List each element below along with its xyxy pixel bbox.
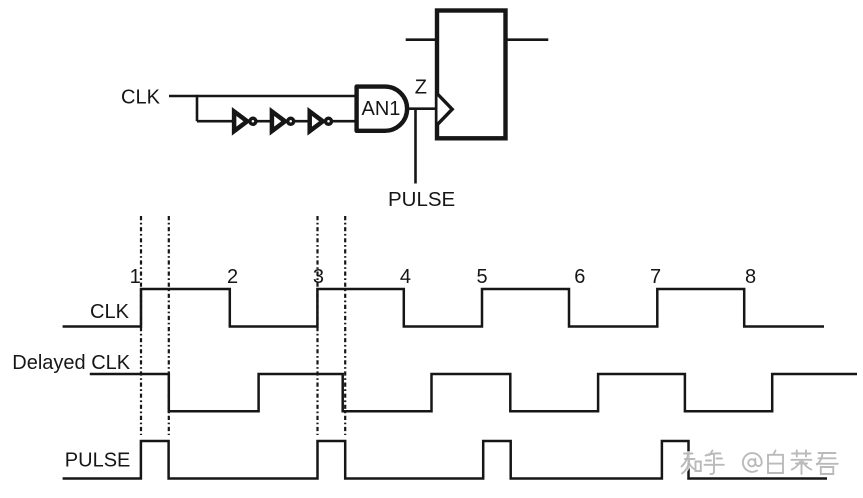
dash-dot marker line 3b [344,216,346,435]
svg-text:3: 3 [313,266,324,288]
wire down to PULSE [414,109,417,184]
flip-flop U1 body [437,11,506,139]
svg-text:Delayed CLK: Delayed CLK [12,352,131,374]
svg-text:4: 4 [400,266,411,288]
dash-dot marker line 1b [168,216,170,435]
wire branch down from CLK net [196,95,199,121]
svg-text:7: 7 [650,266,661,288]
wire inverter chain bottom to AND bottom input [197,120,357,123]
inverter 1 [234,112,256,132]
svg-text:CLK: CLK [90,301,130,323]
svg-text:CLK: CLK [121,87,161,109]
waveform CLK trace [63,289,824,327]
svg-text:2: 2 [227,266,238,288]
flip-flop clock edge triangle [438,94,453,124]
wire CLK to AND top input [169,95,357,98]
waveform PULSE trace [63,441,827,479]
svg-text:AN1: AN1 [362,98,401,120]
watermark 知乎 @白菜君 [682,451,838,475]
svg-text:PULSE: PULSE [65,450,131,472]
dash-dot marker line 3a [316,216,318,435]
waveform Delayed CLK trace [90,374,857,411]
svg-text:5: 5 [476,266,487,288]
svg-text:Z: Z [415,77,427,99]
dash-dot marker line 1a [140,216,142,435]
svg-text:PULSE: PULSE [388,188,455,211]
wire AND output Z to flip-flop [408,107,438,110]
inverter 3 [310,112,332,132]
and-gate AN1 [357,87,408,131]
wire flip-flop horizontal pin line [406,38,549,41]
svg-text:8: 8 [745,266,756,288]
inverter 2 [272,112,294,132]
svg-text:1: 1 [130,266,141,288]
svg-text:6: 6 [574,266,585,288]
